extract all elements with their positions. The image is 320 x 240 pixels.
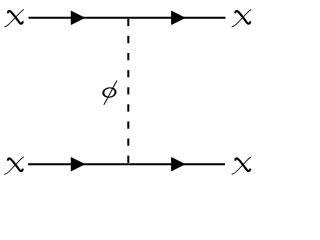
label chi top-left (5, 10, 24, 27)
label chi bottom-right (232, 157, 251, 174)
label phi (102, 81, 118, 105)
fermion line chi bottom (28, 163, 225, 165)
arrow on bottom-left fermion line (71, 158, 84, 171)
fermion line chi top (29, 17, 226, 19)
arrow on top-left fermion line (71, 11, 84, 24)
label chi bottom-left (5, 157, 24, 174)
scalar propagator phi (dashed) (127, 19, 129, 164)
arrow on top-right fermion line (172, 11, 185, 24)
label chi top-right (232, 10, 251, 27)
arrow on bottom-right fermion line (172, 158, 185, 171)
